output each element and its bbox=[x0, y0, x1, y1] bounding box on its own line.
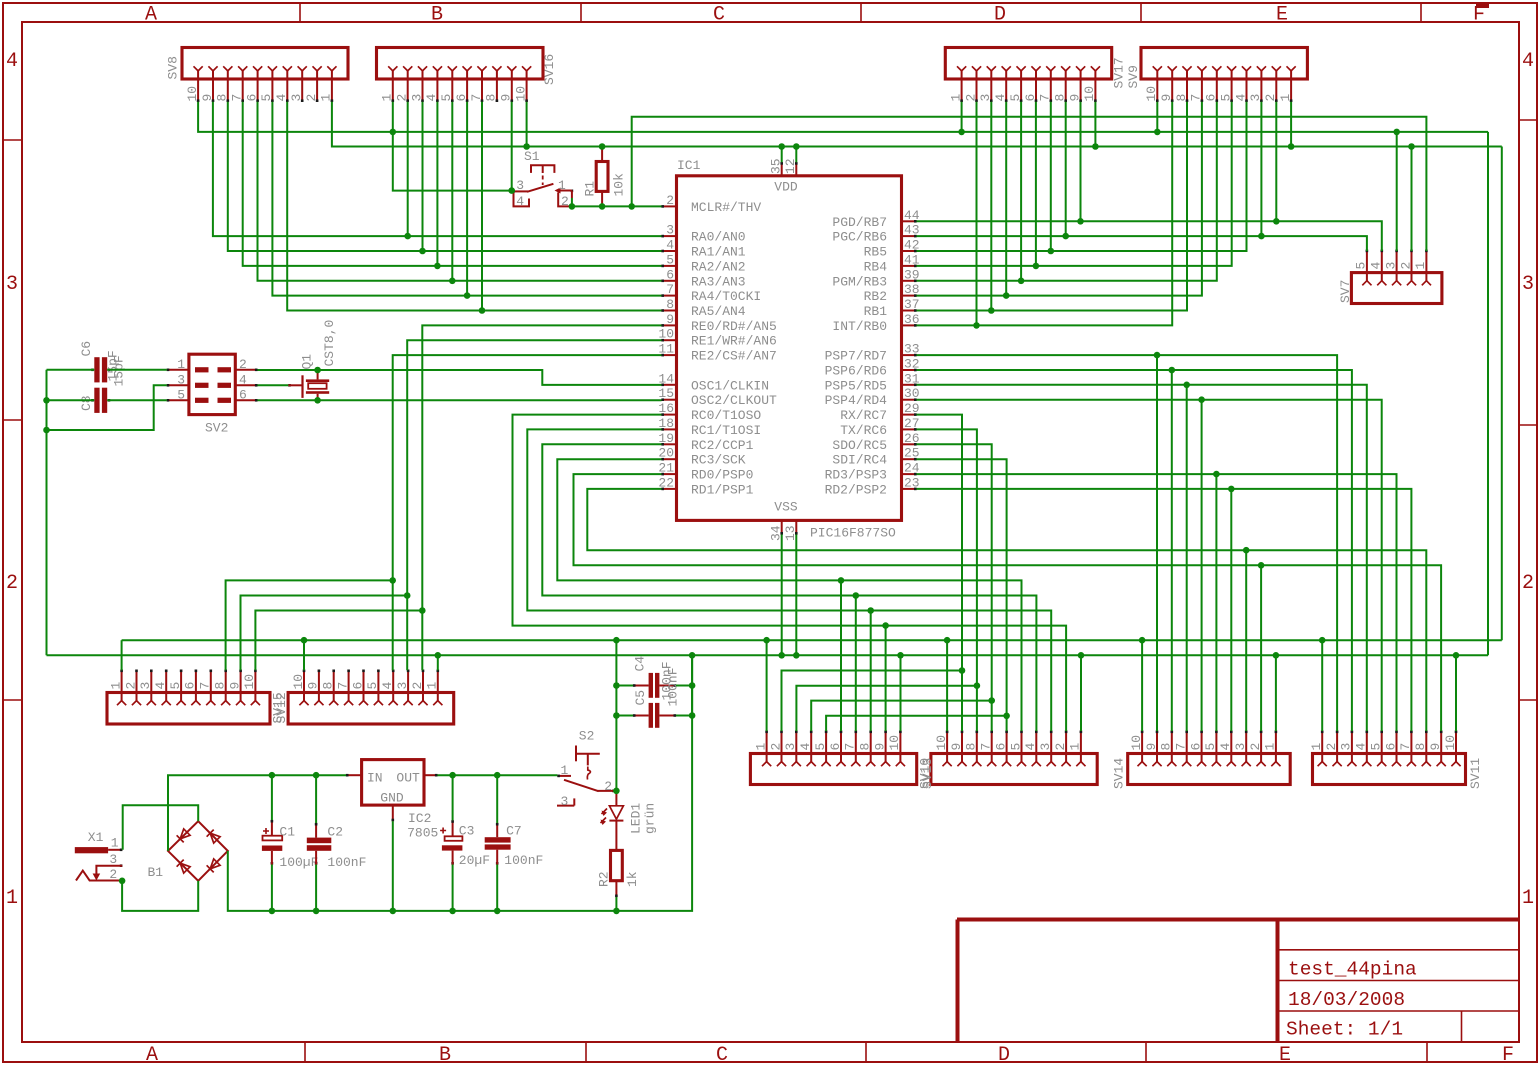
svg-text:RC3/SCK: RC3/SCK bbox=[691, 453, 746, 468]
svg-text:5: 5 bbox=[1354, 262, 1369, 270]
wire RB6 SV17 pin8 stub bbox=[1065, 102, 1067, 236]
wire RC4 from IC1 down to SV13 bbox=[917, 459, 1007, 731]
bridge rectifier B1 bbox=[148, 821, 228, 881]
connector SV16 bbox=[377, 48, 558, 103]
wire RC3 bus bbox=[557, 459, 1021, 731]
junction RD6 at SV14 bbox=[1169, 367, 1176, 374]
wire VDD bottom rail bbox=[122, 639, 1502, 641]
wire RD2 SV14 drop bbox=[1230, 489, 1232, 731]
svg-text:4: 4 bbox=[1522, 50, 1534, 73]
svg-text:MCLR#/THV: MCLR#/THV bbox=[691, 200, 761, 215]
svg-text:7: 7 bbox=[1038, 94, 1053, 102]
wire RC2 SV10 drop bbox=[855, 596, 857, 732]
switch S2 bbox=[557, 729, 615, 809]
switch S1 bbox=[512, 149, 573, 209]
svg-text:8: 8 bbox=[215, 94, 230, 102]
connector SV9 bbox=[1126, 48, 1307, 103]
svg-text:6: 6 bbox=[454, 94, 469, 102]
svg-text:4: 4 bbox=[380, 682, 395, 690]
wire RD6 line bbox=[917, 370, 1352, 731]
svg-text:7: 7 bbox=[230, 94, 245, 102]
wire OSC1 SV2 pin2 to Q1 bbox=[257, 369, 317, 371]
wire GND SV9 pin10 stub bbox=[1156, 102, 1158, 132]
svg-text:Sheet: 1/1: Sheet: 1/1 bbox=[1286, 1019, 1403, 1041]
junction RB7 at SV9 pin2 bbox=[1273, 218, 1280, 225]
svg-text:1: 1 bbox=[560, 763, 568, 778]
title block bbox=[957, 920, 1519, 1043]
svg-text:6: 6 bbox=[1188, 743, 1203, 751]
svg-text:3: 3 bbox=[1233, 743, 1248, 751]
svg-text:18/03/2008: 18/03/2008 bbox=[1288, 989, 1405, 1011]
svg-text:6: 6 bbox=[1204, 94, 1219, 102]
svg-text:C1: C1 bbox=[279, 825, 295, 840]
svg-text:9: 9 bbox=[949, 743, 964, 751]
junction RD0 at SV14 pin2 bbox=[1258, 562, 1265, 569]
wire RD3 line bbox=[917, 474, 1397, 731]
junction RD1 at SV14 pin3 bbox=[1243, 547, 1250, 554]
svg-text:5: 5 bbox=[1218, 94, 1233, 102]
connector SV13 bbox=[920, 731, 1097, 790]
junction GND at SV17 pin1 bbox=[958, 129, 965, 136]
svg-text:8: 8 bbox=[321, 682, 336, 690]
svg-text:3: 3 bbox=[177, 372, 185, 387]
svg-text:6: 6 bbox=[244, 94, 259, 102]
capacitor C3 20uF bbox=[440, 820, 490, 868]
svg-text:PSP7/RD7: PSP7/RD7 bbox=[825, 349, 887, 364]
junction GND at SV12 pin1 bbox=[435, 652, 442, 659]
svg-text:4: 4 bbox=[1023, 743, 1038, 751]
wire MCLR S1 pin2 stub bbox=[571, 198, 573, 206]
svg-text:CST8,0: CST8,0 bbox=[322, 320, 337, 367]
svg-text:5: 5 bbox=[1369, 743, 1384, 751]
svg-text:RC1/T1OSI: RC1/T1OSI bbox=[691, 423, 761, 438]
junction RB6 at SV17 pin8 bbox=[1062, 233, 1069, 240]
svg-text:15pF: 15pF bbox=[112, 355, 127, 386]
svg-text:RB1: RB1 bbox=[864, 304, 888, 319]
wire VDD S2 LED branch bbox=[615, 640, 617, 791]
wire RB7 line44 bbox=[917, 221, 1382, 251]
svg-text:SV14: SV14 bbox=[1112, 758, 1127, 789]
svg-text:VDD: VDD bbox=[774, 180, 798, 195]
junction GND at C4 right bbox=[689, 682, 696, 689]
svg-text:100µF: 100µF bbox=[279, 855, 318, 870]
wire VDD SV9 pin1 stub bbox=[1290, 102, 1292, 147]
svg-text:6: 6 bbox=[239, 387, 247, 402]
svg-text:100nF: 100nF bbox=[504, 853, 543, 868]
wire C4 right link bbox=[676, 685, 692, 687]
svg-text:RA1/AN1: RA1/AN1 bbox=[691, 245, 746, 260]
wire RE2 from IC1 down to SV12 bbox=[393, 355, 662, 670]
svg-text:2: 2 bbox=[1248, 743, 1263, 751]
svg-text:5: 5 bbox=[666, 252, 674, 267]
svg-text:4: 4 bbox=[424, 94, 439, 102]
wire GND C4C5 right branch bbox=[691, 655, 693, 715]
wire C3 top bbox=[452, 775, 454, 820]
svg-text:RD0/PSP0: RD0/PSP0 bbox=[691, 468, 753, 483]
svg-text:C: C bbox=[713, 4, 725, 27]
svg-text:1: 1 bbox=[380, 94, 395, 102]
svg-text:1: 1 bbox=[108, 682, 123, 690]
svg-text:PGC/RB6: PGC/RB6 bbox=[832, 230, 887, 245]
wire MCLR top run to SV7 pin1 bbox=[632, 117, 1427, 251]
junction RA5 at SV16 bbox=[479, 307, 486, 314]
svg-text:2: 2 bbox=[963, 94, 978, 102]
connector SV15 bbox=[107, 670, 286, 725]
svg-text:R2: R2 bbox=[597, 871, 612, 887]
svg-text:5: 5 bbox=[259, 94, 274, 102]
wire AC2 X1 pin2 to bridge bbox=[122, 881, 198, 911]
svg-text:3: 3 bbox=[666, 223, 674, 238]
wire RD4 line bbox=[917, 400, 1382, 731]
wire RC7 from IC1 down to SV13 bbox=[917, 415, 963, 731]
wire RA2 SV16 stub bbox=[436, 102, 438, 266]
svg-text:SV11: SV11 bbox=[1468, 758, 1483, 789]
svg-text:OUT: OUT bbox=[396, 771, 420, 786]
junction VDD at IC1 pin12 bbox=[793, 143, 800, 150]
junction VDD at SV16 pin10 bbox=[523, 143, 530, 150]
wire RC0 bus bbox=[513, 415, 1067, 731]
svg-text:3: 3 bbox=[783, 743, 798, 751]
svg-text:SV16: SV16 bbox=[542, 54, 557, 85]
wire RA4 from SV8 to IC1 bbox=[272, 102, 661, 296]
wire RD5 line bbox=[917, 385, 1367, 731]
wire C7 top bbox=[496, 775, 498, 823]
wire GND SV7 pin3 stub bbox=[1396, 132, 1398, 251]
svg-text:2: 2 bbox=[604, 779, 612, 794]
svg-text:1: 1 bbox=[111, 836, 119, 851]
svg-text:7: 7 bbox=[335, 682, 350, 690]
capacitor C7 100nF bbox=[485, 823, 544, 868]
wire DC+ rail bridge to IC2 bbox=[168, 775, 346, 851]
wire C3 bottom bbox=[452, 865, 454, 911]
svg-text:10: 10 bbox=[887, 735, 902, 751]
wire RB0 line bbox=[917, 102, 1173, 326]
wire RC5 from IC1 down to SV13 bbox=[917, 444, 992, 731]
wire RE1 bus to SV15 bbox=[241, 596, 408, 671]
wire GND from SV8 pin10 along top rail bbox=[198, 102, 1488, 132]
connector SV12 bbox=[274, 670, 454, 725]
wire RB7 SV17 pin9 stub bbox=[1080, 102, 1082, 222]
svg-text:C7: C7 bbox=[506, 824, 522, 839]
svg-text:2: 2 bbox=[395, 94, 410, 102]
wire RD6 SV14 drop bbox=[1171, 370, 1173, 731]
wire SV2 pin3 ground link bbox=[47, 385, 167, 430]
wire RE2 bus to SV15 bbox=[226, 580, 393, 670]
wire RC5 link to SV10 bbox=[811, 701, 992, 731]
wire RA4 SV16 stub bbox=[466, 102, 468, 296]
svg-text:10: 10 bbox=[513, 86, 528, 102]
svg-text:6: 6 bbox=[993, 743, 1008, 751]
svg-text:7: 7 bbox=[198, 682, 213, 690]
svg-text:D: D bbox=[998, 1044, 1010, 1065]
svg-text:5: 5 bbox=[439, 94, 454, 102]
wire RD7 SV14 drop bbox=[1156, 355, 1158, 731]
svg-text:3: 3 bbox=[1522, 273, 1534, 296]
svg-text:Q1: Q1 bbox=[300, 354, 315, 370]
svg-text:RA4/T0CKI: RA4/T0CKI bbox=[691, 289, 761, 304]
svg-text:6: 6 bbox=[666, 267, 674, 282]
svg-text:3: 3 bbox=[138, 682, 153, 690]
wire SV2 pin4 to Q1 gnd bbox=[257, 384, 288, 386]
wire VSS pin13 drop bbox=[795, 535, 797, 656]
svg-text:D: D bbox=[994, 4, 1006, 27]
wire RA0 SV16 stub bbox=[407, 102, 409, 236]
junction PGND at C1 bbox=[269, 908, 276, 915]
svg-text:6: 6 bbox=[828, 743, 843, 751]
svg-text:7: 7 bbox=[979, 743, 994, 751]
svg-text:SV9: SV9 bbox=[1126, 65, 1141, 88]
junction RE1 at SV12 pin bbox=[404, 592, 411, 599]
svg-text:C5: C5 bbox=[633, 690, 648, 706]
junction GND at SV2 pin3 line bbox=[43, 427, 50, 434]
junction VDD at SV12 pin10 bbox=[301, 637, 308, 644]
svg-text:1k: 1k bbox=[625, 871, 640, 887]
svg-text:3: 3 bbox=[6, 273, 18, 296]
wire C2 bottom bbox=[315, 865, 317, 911]
junction VDD at SV9 pin1 bbox=[1288, 143, 1295, 150]
wire VDD SV12 pin10 stub bbox=[303, 640, 305, 670]
wire RD2 line bbox=[917, 489, 1412, 731]
svg-text:2: 2 bbox=[123, 682, 138, 690]
svg-text:8: 8 bbox=[1174, 94, 1189, 102]
svg-text:3: 3 bbox=[409, 94, 424, 102]
wire RB5 SV17 stub bbox=[1050, 102, 1052, 251]
svg-text:INT/RB0: INT/RB0 bbox=[832, 319, 887, 334]
svg-text:8: 8 bbox=[1159, 743, 1174, 751]
svg-text:SV17: SV17 bbox=[1112, 57, 1127, 88]
wire RB5 line bbox=[917, 102, 1247, 251]
connector SV8 bbox=[166, 48, 349, 103]
junction RC5 at SV13 column bbox=[988, 697, 995, 704]
svg-text:4: 4 bbox=[798, 743, 813, 751]
wire RD1 SV14 pin3 drop bbox=[1245, 550, 1247, 731]
wire RD4 SV14 drop bbox=[1201, 400, 1203, 731]
wire RC4 link to SV10 bbox=[826, 716, 1007, 731]
svg-text:IC2: IC2 bbox=[408, 811, 431, 826]
wire C1 bottom bbox=[271, 865, 273, 911]
wire VSS pin34 drop bbox=[781, 535, 783, 656]
svg-text:10: 10 bbox=[1129, 735, 1144, 751]
junction VDD at SV14 pin10 bbox=[1139, 637, 1146, 644]
capacitor C1 100uF bbox=[262, 820, 319, 870]
svg-text:7: 7 bbox=[843, 743, 858, 751]
wire 5V rail IC2 OUT to S2 bbox=[437, 774, 557, 776]
wire VDD from SV8 pin1 along rail bbox=[332, 102, 1502, 147]
junction LED supply at C4 bbox=[613, 682, 620, 689]
svg-text:3: 3 bbox=[395, 682, 410, 690]
wire C7 bottom bbox=[496, 865, 498, 911]
voltage regulator IC2 7805 bbox=[346, 760, 438, 841]
wire RC6 from IC1 down to SV13 bbox=[917, 429, 977, 731]
junction MCLR at top run bbox=[628, 203, 635, 210]
svg-text:R1: R1 bbox=[583, 181, 598, 197]
svg-text:2: 2 bbox=[1053, 743, 1068, 751]
wire C5 right link bbox=[676, 715, 692, 717]
svg-text:C6: C6 bbox=[79, 341, 94, 357]
svg-text:3: 3 bbox=[978, 94, 993, 102]
wire RB2 SV17 stub bbox=[1005, 102, 1007, 296]
svg-text:1: 1 bbox=[6, 887, 18, 910]
junction GND at SV9 pin10 bbox=[1154, 129, 1161, 136]
svg-text:RE2/CS#/AN7: RE2/CS#/AN7 bbox=[691, 349, 777, 364]
svg-text:S1: S1 bbox=[524, 149, 540, 164]
wire RD7 line bbox=[917, 355, 1338, 731]
svg-text:2: 2 bbox=[561, 194, 569, 209]
junction 5V at C3 bbox=[449, 772, 456, 779]
junction VDD at IC1 pin35 bbox=[778, 143, 785, 150]
junction VDD at SV13 pin10 bbox=[944, 637, 951, 644]
junction LED supply at S2 pin2 bbox=[613, 788, 620, 795]
svg-text:LED1: LED1 bbox=[629, 803, 644, 834]
wire RST SV16 pin1 drop bbox=[393, 102, 512, 191]
junction GND at SV11 pin10 bbox=[1453, 652, 1460, 659]
connector SV14 bbox=[1112, 731, 1291, 790]
svg-text:test_44pina: test_44pina bbox=[1288, 959, 1417, 981]
junction RD4 at SV14 bbox=[1198, 396, 1205, 403]
svg-text:RA3/AN3: RA3/AN3 bbox=[691, 274, 746, 289]
svg-text:2: 2 bbox=[1522, 572, 1534, 595]
svg-text:10: 10 bbox=[242, 674, 257, 690]
wire OSC1 line bbox=[318, 370, 662, 385]
svg-text:1: 1 bbox=[753, 743, 768, 751]
junction GND at SV16 pin1 bbox=[390, 129, 397, 136]
junction GND at SV14 pin1 bbox=[1273, 652, 1280, 659]
wire RA3 from SV8 to IC1 bbox=[258, 102, 662, 281]
svg-text:SV13: SV13 bbox=[920, 758, 935, 789]
wire VDD right-side drop bbox=[1501, 147, 1503, 641]
junction RA3 at SV16 bbox=[449, 278, 456, 285]
wire RB6 SV9 pin3 stub bbox=[1260, 102, 1262, 236]
svg-text:PGD/RB7: PGD/RB7 bbox=[832, 215, 887, 230]
wire RC0 SV10 drop bbox=[885, 626, 887, 731]
svg-text:VSS: VSS bbox=[774, 500, 798, 515]
svg-text:C: C bbox=[716, 1044, 728, 1065]
wire VDD SV17 pin10 stub bbox=[1094, 102, 1096, 147]
svg-text:7: 7 bbox=[469, 94, 484, 102]
svg-text:PSP6/RD6: PSP6/RD6 bbox=[825, 364, 887, 379]
svg-text:1: 1 bbox=[1278, 94, 1293, 102]
svg-text:RC0/T1OSO: RC0/T1OSO bbox=[691, 408, 761, 423]
wire C2 top bbox=[315, 775, 317, 823]
junction GND at C5 right bbox=[689, 712, 696, 719]
wire RA5 from SV8 to IC1 bbox=[287, 102, 661, 311]
svg-text:IN: IN bbox=[367, 771, 383, 786]
wire OSC1 C6 to SV2 bbox=[107, 369, 167, 371]
svg-text:2: 2 bbox=[109, 867, 117, 882]
junction PGND at IC2 GND bbox=[390, 908, 397, 915]
svg-text:RD2/PSP2: RD2/PSP2 bbox=[825, 482, 887, 497]
wire C1 top bbox=[271, 775, 273, 820]
svg-text:2: 2 bbox=[410, 682, 425, 690]
svg-text:5: 5 bbox=[168, 682, 183, 690]
wire RD0 SV14 pin2 drop bbox=[1260, 565, 1262, 731]
wire RB3 SV17 stub bbox=[1020, 102, 1022, 281]
svg-text:8: 8 bbox=[964, 743, 979, 751]
junction RB7 at SV17 pin9 bbox=[1077, 218, 1084, 225]
svg-text:GND: GND bbox=[380, 791, 404, 806]
wire RB7 SV9 pin2 stub bbox=[1275, 102, 1277, 222]
capacitor C5 100nF bbox=[633, 667, 681, 727]
connector SV7 bbox=[1338, 250, 1442, 304]
wire RC1 SV10 drop bbox=[870, 611, 872, 732]
svg-text:4: 4 bbox=[1354, 743, 1369, 751]
svg-text:RA2/AN2: RA2/AN2 bbox=[691, 259, 746, 274]
junction VDD at S2 branch bbox=[613, 637, 620, 644]
svg-text:X1: X1 bbox=[88, 830, 104, 845]
wire RB2 line bbox=[917, 102, 1202, 296]
wire GND SV10 pin10 stub bbox=[900, 655, 902, 731]
junction PGND at C7 bbox=[494, 908, 501, 915]
svg-text:SDI/RC4: SDI/RC4 bbox=[832, 453, 887, 468]
junction RB0 at SV17 bbox=[973, 322, 980, 329]
svg-text:4: 4 bbox=[153, 682, 168, 690]
connector SV11 bbox=[1309, 731, 1483, 790]
wire GND SV11 pin10 stub bbox=[1455, 655, 1457, 731]
junction AC2 at X1 pin2 bbox=[119, 878, 126, 885]
wire RD0 bus bbox=[574, 474, 1442, 731]
wire RST SV16 pin9 drop bbox=[511, 102, 513, 191]
wire VDD SV14 pin10 stub bbox=[1141, 640, 1143, 731]
wire PGND bridge minus rail bbox=[228, 655, 692, 911]
svg-text:2: 2 bbox=[304, 94, 319, 102]
svg-text:2: 2 bbox=[666, 193, 674, 208]
wire VDD SV15 pin1 stub bbox=[121, 640, 123, 670]
svg-text:6: 6 bbox=[1383, 743, 1398, 751]
svg-text:B: B bbox=[439, 1044, 451, 1065]
svg-text:E: E bbox=[1276, 4, 1288, 27]
svg-text:7: 7 bbox=[1189, 94, 1204, 102]
svg-text:2: 2 bbox=[239, 357, 247, 372]
svg-text:1: 1 bbox=[558, 178, 566, 193]
wire RB1 line bbox=[917, 102, 1188, 311]
svg-text:1: 1 bbox=[1522, 887, 1534, 910]
capacitor C8 15pF bbox=[79, 355, 127, 413]
svg-text:RE0/RD#/AN5: RE0/RD#/AN5 bbox=[691, 319, 777, 334]
junction RC3 at SV10 bbox=[838, 577, 845, 584]
junction RB5 at SV17 bbox=[1048, 248, 1055, 255]
junction 5V at C7 bbox=[494, 772, 501, 779]
svg-text:RD3/PSP3: RD3/PSP3 bbox=[825, 468, 887, 483]
junction RE2 at SV12 pin bbox=[389, 577, 396, 584]
wire VDD IC1 pin35 stub bbox=[781, 147, 783, 163]
svg-text:OSC2/CLKOUT: OSC2/CLKOUT bbox=[691, 393, 777, 408]
svg-text:RX/RC7: RX/RC7 bbox=[840, 408, 887, 423]
wire GND SV17 pin1 stub bbox=[961, 102, 963, 132]
svg-text:100nF: 100nF bbox=[327, 855, 366, 870]
junction RC4 at SV13 column bbox=[1003, 713, 1010, 720]
wire RC2 bus bbox=[542, 444, 1036, 731]
svg-text:8: 8 bbox=[1413, 743, 1428, 751]
wire R2 bottom bbox=[615, 897, 617, 911]
wire RB4 SV17 stub bbox=[1035, 102, 1037, 266]
svg-text:F: F bbox=[1502, 1044, 1514, 1065]
svg-text:SV7: SV7 bbox=[1338, 280, 1353, 303]
svg-text:1: 1 bbox=[425, 682, 440, 690]
wire RC1 bus bbox=[527, 429, 1051, 731]
wire RA3 SV16 stub bbox=[451, 102, 453, 281]
wire RB3 line bbox=[917, 102, 1217, 281]
junction DC+ at C2 bbox=[313, 772, 320, 779]
svg-text:SV12: SV12 bbox=[274, 692, 289, 723]
junction VDD at SV7 pin2 bbox=[1408, 143, 1415, 150]
svg-text:PSP5/RD5: PSP5/RD5 bbox=[825, 378, 887, 393]
capacitor C2 100nF bbox=[307, 823, 367, 870]
svg-text:PSP4/RD4: PSP4/RD4 bbox=[825, 393, 888, 408]
wire RB6 line43 bbox=[917, 236, 1367, 251]
svg-text:RB5: RB5 bbox=[864, 245, 887, 260]
wire IC2 GND drop bbox=[392, 821, 394, 911]
svg-text:1: 1 bbox=[1309, 743, 1324, 751]
